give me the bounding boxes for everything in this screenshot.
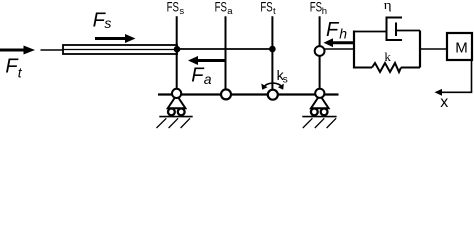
svg-text:s: s (283, 75, 288, 86)
bracket left vertical (353, 31, 355, 69)
vertical member FS_s (176, 16, 178, 89)
damper piston plate (395, 23, 397, 37)
wire F_h circle to bracket (325, 48, 355, 50)
svg-text:x: x (440, 94, 448, 111)
hatching (157, 118, 167, 128)
svg-text:M: M (455, 40, 468, 57)
hinge circle on beam below FS_t (268, 90, 278, 100)
beam (lower lever) (158, 93, 339, 95)
svg-text:a: a (227, 6, 233, 17)
triangle (168, 95, 186, 108)
svg-text:a: a (204, 71, 212, 87)
svg-text:h: h (339, 26, 347, 42)
x axis polyline (441, 60, 472, 92)
right support (302, 89, 336, 128)
pin circle (172, 89, 181, 98)
svg-text:η: η (384, 0, 392, 12)
rollers (168, 109, 175, 116)
junction dot at rod end (174, 46, 181, 53)
torsional spring arc k_s (261, 83, 284, 90)
junction dot at FS_t node (269, 46, 276, 53)
damper piston rod (396, 30, 420, 32)
svg-text:FS: FS (167, 0, 179, 15)
svg-text:h: h (322, 6, 327, 17)
svg-text:FS: FS (310, 0, 322, 15)
bracket right vertical (419, 31, 421, 68)
mass box M (447, 33, 472, 60)
rod (tool shaft) (63, 45, 177, 54)
vertical member FS_h lower (319, 56, 321, 89)
force arrow F_a (188, 56, 226, 65)
vertical member FS_h upper (319, 16, 321, 46)
x axis arrowhead (435, 89, 443, 96)
svg-text:s: s (179, 6, 184, 17)
svg-text:s: s (104, 15, 111, 31)
force arrow F_t (0, 46, 35, 55)
hinge circle on beam below FS_a (221, 89, 231, 99)
left support (157, 89, 193, 128)
force arrow F_h (324, 38, 354, 47)
force arrow F_s (95, 34, 136, 43)
vertical member FS_t (271, 16, 273, 90)
svg-text:FS: FS (215, 0, 227, 15)
vertical member FS_a (225, 16, 227, 89)
wire bracket to mass (420, 48, 447, 50)
svg-text:t: t (273, 6, 276, 17)
svg-text:F: F (326, 19, 340, 41)
wire from F_t to rod (41, 49, 65, 51)
damper cup (387, 18, 403, 41)
ground line (159, 116, 192, 118)
link wire rod to FS_t (177, 48, 272, 50)
svg-text:FS: FS (260, 0, 272, 15)
pin circle FS_h / F_h (315, 46, 325, 56)
spring k (354, 63, 420, 72)
damper branch wire (354, 31, 387, 33)
svg-text:k: k (384, 49, 391, 64)
